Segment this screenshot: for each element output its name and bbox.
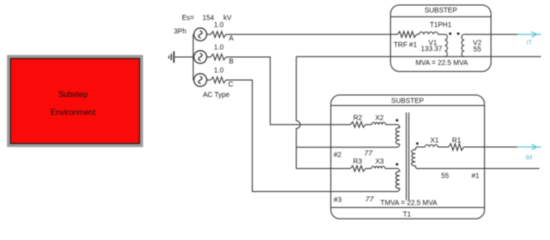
wire winding 1 output (464, 146, 519, 148)
winding 3 (396, 168, 400, 191)
labels winding 2 (334, 148, 374, 159)
svg-text:C: C (228, 81, 233, 88)
resistor TRF #1 (394, 31, 417, 49)
polarity dot V1 (449, 32, 452, 35)
winding 2 (396, 125, 400, 148)
svg-text:Es=: Es= (182, 15, 194, 22)
polarity dot V2 (457, 32, 460, 35)
source A (AC) (193, 28, 211, 41)
svg-text:TMVA = 22.5 MVA: TMVA = 22.5 MVA (380, 200, 437, 207)
substep environment block (10, 58, 140, 144)
svg-text:1.0: 1.0 (214, 22, 224, 29)
svg-text:A: A (229, 36, 234, 43)
wire V2 output (464, 33, 518, 35)
wire phase C down to winding 3 return (226, 80, 396, 192)
polarity dot winding 1 (416, 142, 419, 145)
svg-text:X2: X2 (375, 115, 384, 122)
svg-text:iM: iM (525, 154, 532, 161)
resistor R3 (351, 159, 366, 172)
svg-text:55: 55 (441, 173, 449, 180)
svg-text:iT: iT (527, 39, 532, 46)
labels winding 1 (441, 173, 479, 180)
wire ground to bus (175, 56, 194, 58)
svg-text:#2: #2 (334, 152, 342, 159)
svg-text:kV: kV (223, 15, 232, 22)
svg-text:B: B (229, 58, 234, 65)
current probe iT (517, 32, 541, 47)
inductor TRF (417, 32, 446, 34)
wire phase B down to winding 2 (226, 57, 351, 125)
labels winding 3 (334, 194, 375, 204)
svg-text:1.0: 1.0 (214, 44, 224, 51)
svg-text:TRF #1: TRF #1 (394, 42, 417, 49)
svg-text:MVA = 22.5 MVA: MVA = 22.5 MVA (415, 60, 468, 67)
wire winding 2 return (296, 146, 396, 148)
resistor B 1.0 (211, 44, 226, 60)
inductor X3 (366, 159, 397, 169)
inductor X1 (419, 138, 449, 148)
svg-text:R1: R1 (452, 138, 461, 145)
ground (169, 51, 174, 63)
transformer core (406, 113, 409, 201)
svg-text:133.37: 133.37 (421, 46, 443, 53)
resistor A 1.0 (211, 22, 226, 38)
svg-text:77: 77 (364, 148, 373, 157)
svg-text:#1: #1 (472, 173, 480, 180)
wire rail drop with hop (296, 57, 350, 169)
wire neutral rail (296, 56, 541, 58)
inductor X2 (366, 115, 397, 125)
svg-text:3Ph: 3Ph (174, 28, 187, 35)
resistor R1 (449, 138, 464, 151)
svg-text:SUBSTEP: SUBSTEP (391, 98, 424, 105)
winding V2 (462, 34, 482, 56)
source B (AC) (193, 51, 211, 64)
svg-text:AC Type: AC Type (203, 92, 230, 99)
label Es= 154 kV (182, 15, 232, 22)
current probe iM (517, 144, 541, 161)
bus wire (192, 34, 194, 80)
svg-text:SUBSTEP: SUBSTEP (424, 7, 457, 14)
svg-text:#3: #3 (334, 197, 342, 204)
substep box T1PH1 (391, 5, 492, 72)
svg-text:T1PH1: T1PH1 (430, 22, 452, 29)
svg-text:X1: X1 (430, 138, 439, 145)
resistor C 1.0 (211, 67, 226, 83)
svg-text:154: 154 (202, 15, 214, 22)
svg-text:R2: R2 (353, 115, 362, 122)
source C (AC) (193, 74, 211, 87)
polarity dot winding 3 (396, 163, 399, 166)
resistor R2 (351, 115, 366, 128)
polarity dot winding 2 (396, 119, 399, 122)
winding 1 (411, 147, 419, 169)
svg-text:77: 77 (365, 194, 374, 203)
svg-text:55: 55 (473, 46, 481, 53)
wire winding 1 bottom return (419, 168, 540, 170)
winding V1 (421, 34, 448, 56)
substep box T1 (331, 95, 485, 219)
wire phase A to TRF (226, 33, 398, 35)
svg-text:X3: X3 (375, 159, 384, 166)
svg-text:1.0: 1.0 (214, 67, 224, 74)
svg-text:R3: R3 (353, 159, 362, 166)
svg-text:T1: T1 (403, 212, 411, 219)
